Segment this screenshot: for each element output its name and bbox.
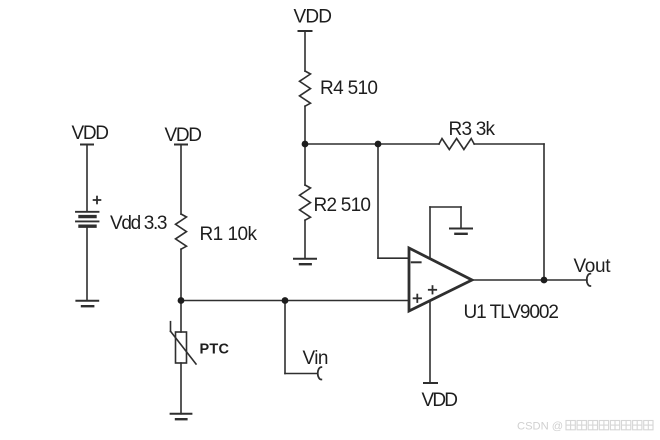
svg-text:R1 10k: R1 10k	[200, 224, 258, 245]
svg-text:Vout: Vout	[574, 256, 612, 277]
svg-text:VDD: VDD	[422, 390, 459, 411]
svg-text:U1 TLV9002: U1 TLV9002	[464, 302, 560, 323]
svg-text:Vdd 3.3: Vdd 3.3	[110, 213, 168, 234]
svg-text:VDD: VDD	[294, 7, 333, 28]
svg-text:R3 3k: R3 3k	[449, 119, 496, 140]
svg-text:Vin: Vin	[303, 348, 329, 369]
svg-text:R4 510: R4 510	[320, 78, 378, 99]
svg-text:R2 510: R2 510	[314, 195, 372, 216]
svg-text:VDD: VDD	[72, 123, 110, 144]
svg-text:PTC: PTC	[200, 342, 230, 358]
svg-text:CSDN @: CSDN @	[517, 421, 563, 433]
svg-text:VDD: VDD	[165, 125, 203, 146]
